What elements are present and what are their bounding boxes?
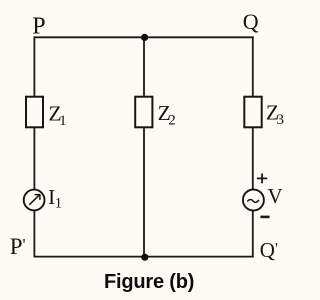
- svg-text:Figure (b): Figure (b): [104, 271, 194, 293]
- plus sign of V: [257, 174, 267, 184]
- wire right vertical lower (V to Q'): [252, 210, 254, 256]
- svg-text:V: V: [268, 184, 283, 208]
- svg-text:P: P: [32, 13, 45, 39]
- wire left vertical lower (I1 to P'): [33, 210, 35, 256]
- wire right vertical upper (Q to Z3): [252, 37, 254, 96]
- impedance Z2: [135, 97, 152, 128]
- minus sign of V: [260, 216, 269, 219]
- wire top horizontal P-Q: [34, 36, 252, 38]
- wire right vertical middle (Z3 to V): [252, 127, 254, 189]
- svg-text:Q: Q: [243, 9, 259, 34]
- wire left vertical middle (Z1 to I1): [33, 127, 35, 189]
- wire middle vertical lower (Z2 to node): [143, 127, 145, 256]
- voltage source V: [243, 190, 264, 211]
- wire middle vertical upper (node to Z2): [143, 37, 145, 96]
- wire left vertical upper (P to Z1): [33, 37, 35, 96]
- wire bottom horizontal P'-Q': [34, 256, 252, 258]
- node top junction: [141, 34, 148, 41]
- impedance Z1: [26, 97, 43, 128]
- current source I1: [24, 190, 45, 211]
- node bottom junction: [141, 254, 148, 261]
- impedance Z3: [244, 97, 261, 128]
